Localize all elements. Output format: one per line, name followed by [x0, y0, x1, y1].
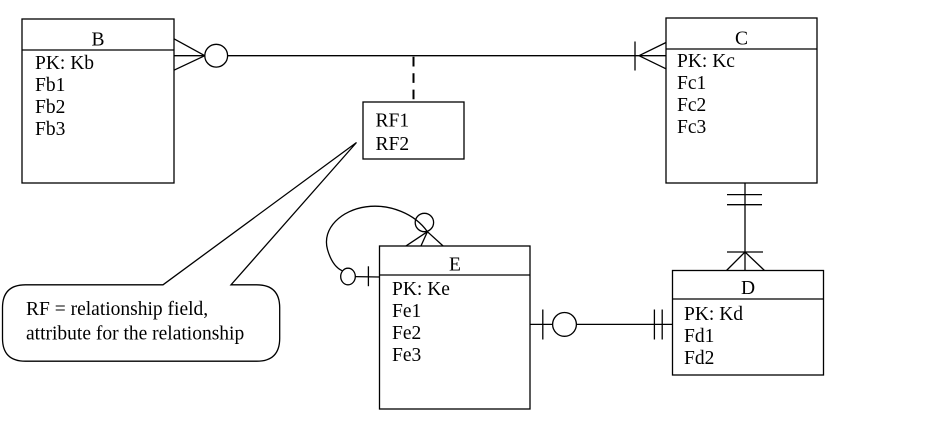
svg-text:Fe3: Fe3 — [392, 345, 421, 366]
entity E — [380, 246, 531, 409]
crow's foot (many) at B right edge — [174, 39, 205, 70]
circle (optional) at loop left end — [341, 268, 356, 285]
tick + crow's foot (one or many) at D top edge — [727, 252, 765, 271]
svg-text:Fb3: Fb3 — [35, 119, 65, 140]
entity D — [673, 271, 824, 376]
wire C-D — [744, 183, 746, 271]
svg-text:C: C — [735, 29, 748, 50]
dashed line from relationship line to RF box — [413, 57, 415, 102]
svg-text:RF1: RF1 — [376, 111, 410, 132]
relationship attribute box RF — [363, 102, 464, 159]
svg-text:Fc3: Fc3 — [677, 117, 706, 138]
tick (one) near E — [542, 310, 544, 340]
wire loop end to E left edge — [355, 276, 379, 278]
svg-text:Fd2: Fd2 — [684, 348, 714, 369]
svg-text:Fc1: Fc1 — [677, 73, 706, 94]
svg-text:RF2: RF2 — [376, 134, 410, 155]
svg-text:Fe1: Fe1 — [392, 301, 421, 322]
callout bubble — [3, 143, 357, 362]
svg-text:Fb2: Fb2 — [35, 97, 65, 118]
svg-text:E: E — [449, 255, 461, 276]
entity B — [22, 19, 174, 183]
entity C — [666, 18, 817, 183]
tick (one) on C side — [634, 42, 636, 71]
svg-text:PK: Kc: PK: Kc — [677, 51, 735, 72]
svg-text:attribute for the relationship: attribute for the relationship — [26, 324, 244, 345]
circle (optional) on B side — [205, 44, 228, 67]
svg-text:PK: Kd: PK: Kd — [684, 304, 743, 325]
crow's foot (many) at E top edge — [406, 232, 443, 246]
circle (optional) on E-D wire — [553, 313, 577, 337]
svg-text:RF = relationship field,: RF = relationship field, — [26, 299, 208, 320]
wire E-D — [530, 323, 673, 325]
svg-text:Fd1: Fd1 — [684, 326, 714, 347]
circle at loop top — [415, 213, 433, 231]
svg-text:Fb1: Fb1 — [35, 75, 65, 96]
double ticks (one and only one) below C — [727, 195, 762, 205]
svg-text:PK: Kb: PK: Kb — [35, 53, 94, 74]
wire B-C relationship line — [228, 55, 666, 57]
svg-text:PK: Ke: PK: Ke — [392, 279, 450, 300]
crow's foot (many) at C left edge — [639, 43, 666, 69]
svg-text:Fe2: Fe2 — [392, 323, 421, 344]
tick (one) at E left edge — [367, 266, 369, 286]
svg-text:Fc2: Fc2 — [677, 95, 706, 116]
double ticks (one and only one) near D — [654, 310, 662, 340]
svg-text:D: D — [741, 278, 755, 299]
svg-text:B: B — [91, 30, 104, 51]
self-relationship loop curve on E — [326, 206, 427, 271]
